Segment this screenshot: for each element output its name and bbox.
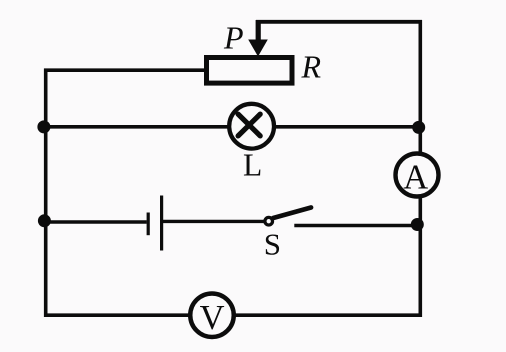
svg-text:A: A	[403, 158, 428, 196]
svg-text:R: R	[301, 49, 322, 85]
lamp L	[229, 104, 274, 149]
node: junction left-battery	[38, 214, 51, 227]
svg-text:S: S	[264, 226, 281, 261]
wire: top horizontal from wiper to right branch	[256, 20, 422, 24]
wire: lamp row horizontal	[44, 125, 420, 129]
resistor R (rheostat box)	[207, 58, 293, 84]
wire: left vertical branch	[44, 69, 48, 318]
svg-text:V: V	[200, 299, 225, 337]
svg-text:P: P	[223, 19, 244, 55]
switch S blade	[273, 208, 311, 219]
wire: right vertical branch	[418, 20, 422, 317]
voltmeter V	[190, 293, 234, 337]
node: junction right-lamp	[412, 121, 425, 134]
wire: battery row left	[44, 220, 147, 223]
wiper arrowhead	[248, 40, 268, 57]
node: junction left-lamp	[37, 120, 50, 133]
node: junction right-switch	[411, 218, 424, 231]
battery: long plate	[160, 196, 163, 251]
switch S pivot	[265, 217, 273, 225]
battery: short plate	[147, 213, 150, 236]
ammeter A	[396, 154, 439, 197]
wire: battery to switch	[163, 220, 264, 223]
wire: wiper vertical drop	[256, 20, 261, 43]
wire: bottom horizontal	[44, 313, 422, 317]
wire: switch to right branch	[294, 224, 420, 227]
wire: top-left horizontal to rheostat	[44, 68, 206, 72]
svg-text:L: L	[243, 148, 262, 183]
